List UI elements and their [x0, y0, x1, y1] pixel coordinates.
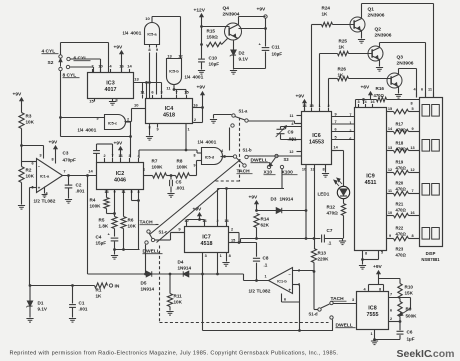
svg-text:1/4: 1/4 [185, 75, 191, 80]
svg-text:+6V: +6V [361, 85, 371, 91]
svg-text:8: 8 [51, 158, 53, 162]
svg-text:2: 2 [103, 154, 105, 158]
svg-text:16: 16 [370, 100, 374, 104]
svg-text:S1-b: S1-b [243, 148, 253, 153]
svg-text:470Ω: 470Ω [396, 253, 407, 258]
svg-text:12: 12 [388, 168, 392, 172]
svg-text:R21: R21 [396, 202, 404, 207]
svg-text:470Ω: 470Ω [396, 232, 407, 237]
svg-text:R20: R20 [396, 181, 404, 186]
svg-text:4511: 4511 [365, 180, 377, 186]
svg-text:+9V: +9V [114, 141, 124, 147]
svg-text:NSB7881: NSB7881 [421, 257, 440, 262]
svg-text:1: 1 [264, 275, 266, 279]
svg-text:14: 14 [334, 146, 339, 150]
svg-text:7555: 7555 [367, 312, 379, 318]
svg-text:R11: R11 [174, 294, 183, 299]
svg-text:IC9: IC9 [366, 174, 374, 180]
svg-text:100K: 100K [90, 204, 102, 209]
svg-text:.1: .1 [328, 241, 332, 246]
svg-text:6: 6 [151, 90, 154, 95]
svg-text:15K: 15K [405, 291, 414, 296]
svg-text:IC4: IC4 [165, 106, 173, 112]
svg-text:7: 7 [111, 154, 113, 158]
svg-text:.com: .com [430, 348, 455, 360]
svg-text:16: 16 [410, 211, 414, 215]
svg-text:Reprinted with permission from: Reprinted with permission from Radio-Ele… [10, 351, 339, 357]
svg-text:IC8: IC8 [368, 306, 376, 312]
svg-text:D2: D2 [239, 51, 245, 56]
svg-text:9.1V: 9.1V [38, 307, 48, 312]
svg-text:10µF: 10µF [272, 52, 283, 57]
svg-text:1/2: 1/2 [34, 199, 41, 204]
svg-text:C7: C7 [327, 228, 333, 233]
svg-text:9: 9 [156, 47, 159, 52]
svg-text:IC5-c: IC5-c [108, 122, 117, 126]
svg-text:4001: 4001 [131, 31, 142, 37]
svg-text:.001: .001 [76, 189, 85, 194]
svg-text:4001: 4001 [193, 75, 204, 81]
svg-text:IC5-d: IC5-d [205, 156, 215, 160]
svg-text:R7: R7 [152, 159, 158, 164]
svg-text:9: 9 [156, 128, 158, 132]
svg-text:.1: .1 [264, 263, 268, 268]
svg-text:TL082: TL082 [42, 199, 56, 205]
svg-text:7: 7 [335, 120, 337, 124]
svg-text:D4: D4 [178, 260, 184, 265]
svg-text:+9V: +9V [257, 7, 267, 13]
svg-text:3: 3 [128, 154, 130, 158]
svg-text:12: 12 [289, 150, 293, 154]
svg-text:IC6: IC6 [312, 133, 320, 139]
svg-text:8: 8 [379, 288, 381, 292]
svg-text:C2: C2 [76, 183, 82, 188]
svg-text:3: 3 [352, 298, 354, 302]
svg-text:220K: 220K [318, 257, 330, 262]
svg-text:R8: R8 [177, 159, 183, 164]
svg-text:1/4: 1/4 [198, 140, 204, 145]
svg-text:1N914: 1N914 [141, 287, 155, 292]
svg-text:9: 9 [194, 164, 196, 168]
svg-text:9: 9 [178, 227, 181, 232]
svg-text:150Ω: 150Ω [207, 35, 219, 40]
svg-text:1K: 1K [339, 45, 346, 50]
svg-text:C4: C4 [96, 235, 102, 240]
svg-text:6: 6 [390, 309, 392, 313]
svg-text:R6: R6 [128, 218, 134, 223]
svg-text:2: 2 [194, 118, 196, 122]
svg-text:R9: R9 [406, 307, 412, 312]
svg-text:R19: R19 [396, 160, 404, 165]
svg-text:16: 16 [302, 104, 306, 108]
svg-text:1K: 1K [322, 12, 329, 17]
svg-text:16: 16 [193, 103, 198, 108]
svg-text:C6: C6 [407, 330, 413, 335]
svg-text:8: 8 [411, 234, 413, 238]
svg-text:1K: 1K [96, 294, 103, 299]
svg-text:5: 5 [335, 136, 337, 140]
svg-text:+: + [259, 42, 262, 47]
svg-text:7: 7 [390, 293, 392, 297]
svg-text:6: 6 [31, 162, 33, 166]
svg-text:2: 2 [327, 104, 329, 108]
svg-text:10K: 10K [174, 300, 183, 305]
svg-text:1: 1 [187, 128, 189, 132]
svg-text:7: 7 [411, 189, 413, 193]
svg-text:R22: R22 [396, 226, 404, 231]
svg-text:8: 8 [148, 47, 151, 52]
svg-text:.001: .001 [176, 186, 185, 191]
svg-text:1N914: 1N914 [280, 197, 294, 202]
svg-text:15µF: 15µF [96, 241, 107, 246]
svg-text:12: 12 [178, 54, 183, 59]
svg-text:500K: 500K [406, 314, 418, 319]
svg-text:−: − [38, 164, 41, 169]
svg-text:R23: R23 [396, 247, 404, 252]
svg-text:7: 7 [349, 113, 351, 117]
svg-text:1: 1 [220, 254, 222, 258]
svg-text:C10: C10 [209, 56, 218, 61]
svg-text:R2: R2 [26, 168, 32, 173]
svg-text:10µF: 10µF [209, 62, 220, 67]
svg-text:R4: R4 [90, 198, 96, 203]
svg-text:1/4: 1/4 [123, 31, 129, 36]
svg-text:8: 8 [365, 252, 367, 256]
svg-text:.001: .001 [79, 307, 88, 312]
svg-text:11: 11 [289, 114, 293, 118]
svg-text:2N3904: 2N3904 [223, 12, 240, 18]
svg-text:IC5-a: IC5-a [147, 33, 157, 37]
svg-text:9.1V: 9.1V [239, 57, 249, 62]
svg-text:2: 2 [390, 317, 392, 321]
svg-text:15: 15 [89, 99, 94, 104]
svg-text:+9V: +9V [114, 45, 124, 51]
svg-text:9: 9 [335, 113, 337, 117]
svg-text:4: 4 [109, 64, 112, 69]
svg-text:D3: D3 [271, 197, 277, 202]
svg-text:R1: R1 [96, 288, 102, 293]
svg-text:R16: R16 [376, 86, 385, 91]
svg-text:3: 3 [39, 153, 42, 158]
svg-text:5: 5 [381, 251, 383, 255]
svg-text:8: 8 [229, 254, 231, 258]
svg-text:R15: R15 [207, 29, 216, 34]
svg-text:Q2: Q2 [375, 27, 382, 33]
svg-text:11: 11 [166, 86, 171, 91]
svg-text:.001: .001 [288, 137, 297, 142]
svg-text:10K: 10K [128, 224, 137, 229]
svg-text:11: 11 [121, 190, 125, 194]
svg-text:D5: D5 [141, 281, 147, 286]
svg-text:10: 10 [388, 211, 392, 215]
svg-text:15: 15 [231, 239, 235, 243]
svg-text:C8: C8 [263, 256, 269, 261]
svg-text:1/4: 1/4 [78, 128, 84, 133]
svg-text:D1: D1 [38, 301, 44, 306]
svg-text:10: 10 [145, 16, 150, 21]
svg-text:1µF: 1µF [407, 337, 415, 342]
svg-text:R3: R3 [26, 114, 32, 119]
svg-text:+: + [288, 288, 291, 293]
svg-text:9: 9 [113, 190, 115, 194]
svg-text:1: 1 [349, 121, 351, 125]
svg-text:6: 6 [349, 137, 351, 141]
svg-text:11: 11 [428, 88, 432, 92]
svg-text:3: 3 [357, 100, 359, 104]
svg-text:9: 9 [411, 127, 413, 131]
svg-text:1: 1 [143, 168, 145, 172]
svg-text:S1-a: S1-a [239, 109, 249, 114]
svg-text:Q3: Q3 [397, 55, 404, 61]
svg-text:470pF: 470pF [63, 158, 76, 163]
svg-text:IC7: IC7 [202, 235, 210, 241]
svg-text:−: − [289, 272, 292, 277]
svg-text:2: 2 [231, 228, 233, 232]
svg-text:LED1: LED1 [318, 192, 330, 197]
svg-text:C9: C9 [288, 130, 294, 135]
svg-text:470Ω: 470Ω [396, 128, 407, 133]
svg-text:S3: S3 [284, 157, 290, 162]
svg-text:+9V: +9V [373, 264, 383, 270]
svg-text:4046: 4046 [114, 177, 126, 183]
svg-text:13: 13 [167, 54, 172, 59]
svg-text:SeekIC: SeekIC [397, 348, 432, 360]
svg-text:R25: R25 [339, 39, 348, 44]
svg-text:6: 6 [284, 298, 286, 302]
svg-text:470Ω: 470Ω [327, 211, 339, 216]
svg-text:1: 1 [370, 332, 372, 336]
svg-text:8: 8 [148, 126, 150, 130]
svg-text:4: 4 [363, 288, 366, 292]
svg-text:100K: 100K [152, 165, 164, 170]
svg-text:C5: C5 [176, 180, 182, 185]
svg-text:IC3: IC3 [106, 81, 114, 87]
svg-text:2N3906: 2N3906 [368, 13, 385, 19]
svg-text:5: 5 [130, 190, 132, 194]
svg-text:5: 5 [411, 107, 413, 111]
svg-text:IC2: IC2 [116, 171, 124, 177]
svg-text:R12: R12 [327, 205, 336, 210]
svg-text:+12V: +12V [194, 8, 206, 14]
svg-text:15: 15 [388, 107, 392, 111]
svg-text:2: 2 [127, 118, 129, 122]
svg-text:+9V: +9V [296, 94, 306, 100]
svg-text:15: 15 [184, 90, 189, 95]
svg-text:62K: 62K [261, 223, 270, 228]
svg-text:+9V: +9V [193, 207, 203, 213]
svg-text:4518: 4518 [201, 241, 213, 247]
svg-text:470Ω: 470Ω [396, 208, 407, 213]
svg-text:4518: 4518 [163, 112, 175, 118]
svg-text:C1: C1 [79, 301, 85, 306]
svg-text:4001: 4001 [86, 128, 97, 134]
svg-text:R26: R26 [338, 67, 347, 72]
svg-text:+9V: +9V [249, 195, 259, 201]
svg-text:4: 4 [364, 100, 367, 104]
svg-text:14: 14 [88, 169, 93, 174]
svg-text:15: 15 [309, 104, 313, 108]
svg-text:10: 10 [98, 64, 103, 69]
svg-text:+9V: +9V [197, 85, 207, 91]
svg-text:R14: R14 [261, 217, 270, 222]
svg-text:Q4: Q4 [223, 6, 230, 12]
svg-text:C3: C3 [63, 151, 69, 156]
svg-text:10: 10 [134, 103, 139, 108]
svg-text:8: 8 [137, 190, 139, 194]
svg-text:470Ω: 470Ω [396, 147, 407, 152]
svg-text:IC1-b: IC1-b [277, 280, 287, 284]
svg-text:6: 6 [421, 88, 423, 92]
svg-text:13: 13 [104, 190, 108, 194]
svg-text:3: 3 [205, 254, 207, 258]
svg-text:R5: R5 [99, 218, 105, 223]
svg-text:1N914: 1N914 [178, 266, 192, 271]
svg-text:TL082: TL082 [257, 289, 271, 295]
svg-text:+: + [38, 186, 41, 191]
svg-text:8: 8 [410, 102, 412, 106]
svg-text:1/2: 1/2 [249, 289, 256, 294]
svg-text:6: 6 [335, 128, 337, 132]
svg-text:R18: R18 [396, 141, 404, 146]
svg-text:C11: C11 [272, 45, 281, 50]
svg-text:+9V: +9V [49, 140, 59, 146]
svg-text:R10: R10 [405, 285, 414, 290]
svg-text:10K: 10K [26, 120, 35, 125]
svg-text:11: 11 [388, 189, 392, 193]
svg-text:S1-d: S1-d [309, 312, 319, 317]
svg-text:13: 13 [410, 146, 414, 150]
svg-text:12: 12 [410, 168, 414, 172]
svg-text:470Ω: 470Ω [396, 187, 407, 192]
svg-text:R24: R24 [322, 6, 331, 11]
svg-text:1.8K: 1.8K [99, 224, 109, 229]
svg-text:IN: IN [115, 284, 120, 290]
svg-text:14553: 14553 [309, 139, 324, 145]
svg-text:8: 8 [322, 168, 324, 172]
svg-text:S2: S2 [48, 60, 54, 66]
svg-text:4: 4 [291, 122, 294, 126]
svg-text:2: 2 [349, 129, 351, 133]
svg-text:7: 7 [63, 169, 66, 174]
svg-text:+: + [108, 232, 111, 237]
svg-text:1: 1 [318, 104, 320, 108]
svg-text:4017: 4017 [105, 87, 117, 93]
svg-text:13: 13 [388, 146, 392, 150]
svg-text:IC5-b: IC5-b [169, 70, 179, 74]
svg-text:IC1-a: IC1-a [40, 175, 50, 179]
svg-text:R17: R17 [396, 122, 404, 127]
svg-text:4001: 4001 [206, 140, 217, 146]
svg-text:10K: 10K [26, 174, 35, 179]
svg-text:4: 4 [221, 149, 224, 153]
svg-text:9: 9 [389, 234, 391, 238]
svg-text:Q1: Q1 [368, 7, 375, 13]
svg-text:DISP: DISP [426, 251, 436, 256]
svg-text:13: 13 [134, 77, 139, 82]
svg-text:14: 14 [127, 64, 132, 69]
svg-text:470Ω: 470Ω [396, 166, 407, 171]
svg-text:+9V: +9V [13, 92, 23, 98]
svg-text:2N3906: 2N3906 [397, 61, 414, 67]
svg-text:14: 14 [388, 127, 393, 131]
svg-text:8: 8 [194, 154, 196, 158]
svg-text:2N3906: 2N3906 [375, 33, 392, 39]
svg-text:100K: 100K [177, 165, 189, 170]
svg-text:R13: R13 [318, 251, 327, 256]
